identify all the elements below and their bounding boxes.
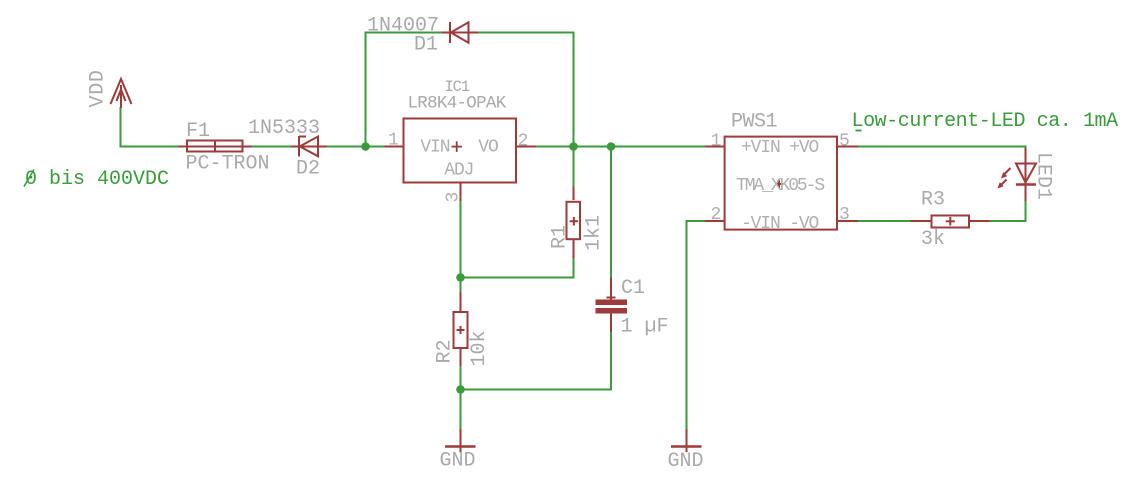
- svg-text:TMA_XK05-S: TMA_XK05-S: [736, 176, 824, 196]
- svg-text:10k: 10k: [468, 330, 491, 366]
- svg-text:+VIN +VO: +VIN +VO: [741, 138, 819, 158]
- svg-text:GND: GND: [668, 450, 704, 473]
- svg-text:LED1: LED1: [1032, 152, 1055, 200]
- svg-text:C1: C1: [621, 277, 645, 300]
- svg-text:3: 3: [444, 192, 464, 203]
- svg-text:VO: VO: [478, 138, 498, 158]
- svg-text:Low-current-LED ca. 1mA: Low-current-LED ca. 1mA: [852, 110, 1119, 133]
- svg-text:1N5333: 1N5333: [248, 117, 320, 140]
- svg-text:-VIN -VO: -VIN -VO: [741, 214, 819, 234]
- svg-text:VIN: VIN: [420, 138, 449, 158]
- svg-text:2: 2: [711, 205, 722, 225]
- svg-text:5: 5: [839, 132, 850, 152]
- svg-text:3: 3: [839, 205, 850, 225]
- svg-text:1k1: 1k1: [583, 215, 606, 251]
- svg-text:D1: D1: [414, 34, 438, 57]
- svg-text:F1: F1: [186, 120, 210, 143]
- svg-text:PC-TRON: PC-TRON: [186, 153, 270, 176]
- svg-text:D2: D2: [296, 158, 320, 181]
- svg-text:1 µF: 1 µF: [621, 316, 669, 339]
- svg-text:PWS1: PWS1: [731, 111, 778, 134]
- svg-text:1: 1: [388, 131, 399, 151]
- svg-text:VDD: VDD: [87, 69, 110, 107]
- svg-text:LR8K4-OPAK: LR8K4-OPAK: [408, 94, 507, 114]
- svg-text:ADJ: ADJ: [444, 161, 473, 181]
- svg-text:2: 2: [518, 132, 529, 152]
- svg-text:0 bis 400VDC: 0 bis 400VDC: [25, 168, 169, 191]
- svg-text:1: 1: [711, 132, 722, 152]
- svg-text:R1: R1: [549, 225, 572, 249]
- svg-text:GND: GND: [440, 450, 476, 473]
- svg-text:R3: R3: [921, 189, 945, 212]
- svg-text:R2: R2: [434, 339, 457, 363]
- svg-text:3k: 3k: [921, 228, 945, 251]
